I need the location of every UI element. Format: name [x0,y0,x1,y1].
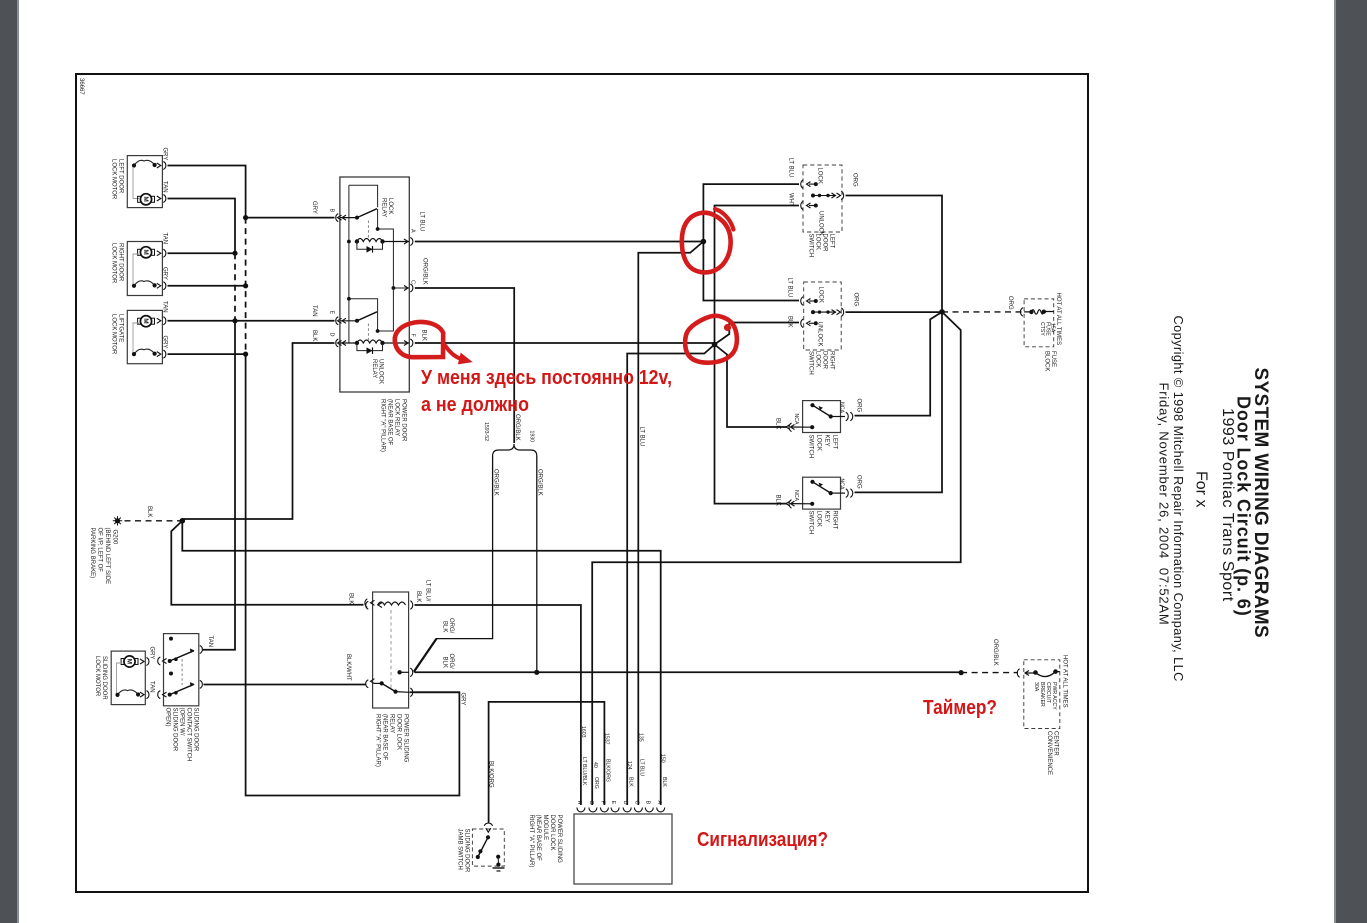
K2 actuator dashed [390,610,392,690]
svg-text:LOCK MOTOR: LOCK MOTOR [111,159,117,200]
jamb switch dashed box [472,829,504,866]
S4 pin right [846,489,853,498]
left door lock motor pin TAN [157,195,166,203]
svg-text:FUSE: FUSE [1050,351,1056,367]
svg-text:PARKING BRAKE): PARKING BRAKE) [89,528,95,579]
svg-text:BLK: BLK [627,777,633,787]
svg-text:BLK: BLK [421,330,427,341]
svg-text:40: 40 [592,762,598,768]
wire ORG right door lock switch to node3 [846,311,943,313]
svg-text:ORG/BLK: ORG/BLK [514,414,520,441]
wire BLK/WHT contact switch to sliding relay [204,684,366,686]
module pin D [623,808,631,812]
svg-text:Сигнализация?: Сигнализация? [697,829,828,851]
relay pin F [404,339,413,347]
relay pin B [336,214,346,222]
module pin E [611,808,619,812]
S3 pin right [846,412,853,421]
S1 pin UNLOCK [801,201,811,210]
right page-edge dark bar [1336,0,1367,923]
wire ORG/BLK relay pin C down [415,288,514,443]
svg-text:SWITCH: SWITCH [808,234,814,258]
svg-text:OPEN): OPEN) [165,708,171,727]
svg-text:RELAY: RELAY [389,714,395,733]
svg-text:(NEAR BASE OF: (NEAR BASE OF [382,714,388,761]
wire BLK G200 to module pin A [182,521,660,805]
svg-text:NCA: NCA [839,479,845,490]
left page-edge dark bar [0,0,17,923]
M4 motor symbol [124,656,135,667]
wire C internal [393,287,409,289]
K2 pin left bottom [366,679,375,688]
svg-text:(NEAR BASE OF: (NEAR BASE OF [535,815,541,862]
svg-text:LT BLU: LT BLU [639,759,645,776]
svg-text:LEFT: LEFT [829,234,835,249]
svg-text:ORG: ORG [1007,296,1013,310]
junction dot GRY right motor [243,283,248,288]
svg-text:GRY: GRY [162,267,168,280]
S5 pin left bottom [158,691,167,699]
wire E internal [340,320,357,322]
K2 mid contact [397,670,401,674]
svg-text:GRY: GRY [162,148,168,161]
svg-text:LOCK: LOCK [818,287,824,303]
svg-text:CONTACT SWITCH: CONTACT SWITCH [186,708,192,762]
svg-text:POWER SLIDING: POWER SLIDING [556,815,562,864]
svg-text:LOCK: LOCK [816,511,822,527]
svg-text:BLK: BLK [415,591,421,602]
S3 lower contact [810,425,814,429]
svg-text:(BEHIND LEFT SIDE: (BEHIND LEFT SIDE [104,528,110,585]
svg-text:CONVENIENCE: CONVENIENCE [1046,731,1052,775]
lock relay internal left rail [349,185,378,343]
S5 pin right top [200,646,203,654]
svg-text:OF I/P, LEFT OF: OF I/P, LEFT OF [97,528,103,573]
S4 pin left [786,500,795,509]
svg-text:15A: 15A [1050,323,1056,333]
svg-text:RIGHT "A" PILLAR): RIGHT "A" PILLAR) [528,815,534,868]
junction dot GRY/B [243,215,248,220]
M4 brush arc [118,690,139,695]
red circle around relay pin F [395,322,443,357]
svg-text:RELAY: RELAY [381,198,387,217]
left door lock switch dashed box [803,165,842,232]
K2 coil [378,602,406,605]
svg-text:E: E [329,311,335,315]
jamb switch pin top [484,823,492,832]
unlock relay clamp diode D2 [357,343,383,351]
node 2 BLK junction [712,342,718,348]
svg-text:а не должно: а не должно [421,394,529,416]
S1 UNLOCK contact [814,204,818,208]
svg-text:UNLOCK: UNLOCK [378,359,384,384]
svg-text:SWITCH: SWITCH [808,511,814,535]
svg-text:(NEAR BASE OF: (NEAR BASE OF [387,399,393,446]
svg-text:For x: For x [1193,471,1210,507]
S2 pin common (right) [832,308,844,317]
wire BLK node2 to left key switch [715,345,787,428]
svg-text:CTSY: CTSY [1039,322,1045,336]
wire TAN down to contact switch [203,321,236,650]
junction dot TAN liftgate [232,318,237,323]
svg-text:TAN: TAN [149,681,155,693]
S4 arm [813,482,831,493]
wire GRY junction to relay pin B [246,217,335,219]
svg-text:TAN: TAN [162,181,168,193]
contact switch box [164,634,199,706]
brace wire split under pin C [493,444,537,456]
wire LT BLU relay pin A to node1 [415,241,704,243]
svg-text:BLK: BLK [442,621,448,632]
red arrow to text [446,346,462,359]
wire A internal [383,241,410,243]
svg-text:ORG: ORG [856,475,862,489]
wire D internal [340,342,357,344]
red circle around node 1 [682,213,731,273]
wire BLK G200 to sliding relay coil [171,521,363,605]
svg-text:NCA: NCA [793,414,799,425]
S2 UNLOCK contact [814,321,818,325]
wire ORG left door lock switch to node3 [846,196,943,312]
diagram border frame [76,74,1088,892]
liftgate lock motor brush arc [134,349,155,354]
fuse block dashed box [1024,299,1054,347]
svg-text:LT BLU: LT BLU [788,158,794,178]
svg-text:BLK: BLK [442,657,448,668]
svg-text:G200: G200 [112,530,118,545]
svg-text:DOOR LOCK: DOOR LOCK [549,815,555,851]
wire ORG/BLK sliding relay to breaker [415,671,962,673]
svg-text:HOT AT ALL TIMES: HOT AT ALL TIMES [1062,655,1068,708]
wire LT BLU node1 up to left door lock switch [703,184,799,241]
S2 pin UNLOCK [801,319,811,328]
S2 pin LOCK [801,297,811,306]
svg-text:NCA: NCA [793,490,799,501]
wire ORG dashed to fuse [942,311,1023,313]
S1 common contacts [811,194,815,198]
K2 pin left top [365,599,375,610]
svg-text:MODULE: MODULE [542,815,548,841]
svg-text:BLK: BLK [311,330,317,341]
relay pin E [336,317,346,325]
svg-text:B: B [645,801,651,805]
svg-text:NCA: NCA [839,402,845,413]
svg-text:1593-52: 1593-52 [483,422,489,441]
wire BLK right door unlock to node2 [715,323,800,345]
wire BLK relay pin F to node2 [415,342,715,344]
svg-text:LOCK RELAY: LOCK RELAY [394,399,400,436]
svg-text:SLIDING DOOR: SLIDING DOOR [101,656,107,700]
svg-text:LOCK MOTOR: LOCK MOTOR [111,314,117,355]
svg-text:Таймер?: Таймер? [923,697,997,719]
wire GRY left door motor to junction [168,166,246,218]
S1 pin LOCK [801,180,811,189]
breaker element [1025,672,1060,677]
right door lock motor box [127,242,162,296]
relay pin C [404,284,413,292]
module box [574,814,672,884]
S1 LOCK contact [814,182,818,186]
module pin G [589,808,597,812]
lock relay clamp diode D1 [357,242,383,250]
liftgate lock motor pin GRY [157,350,166,358]
S3 right link [831,416,845,418]
svg-text:LOCK: LOCK [816,435,822,451]
svg-text:JAMB SWITCH: JAMB SWITCH [457,829,463,870]
svg-text:LT BLU: LT BLU [787,278,793,298]
K2 coil arrows [378,603,382,608]
unlock relay switch arm [357,312,377,321]
svg-text:ORG/BLK: ORG/BLK [537,469,543,496]
liftgate lock motor M symbol [140,316,151,327]
right door lock motor brush arc [134,281,155,286]
svg-text:Friday, November 26, 2004 07:: Friday, November 26, 2004 07:52AM [1157,383,1172,626]
jamb switch ground contact [496,855,500,859]
svg-text:LT BLU/: LT BLU/ [425,580,431,602]
svg-text:UNLOCK: UNLOCK [817,322,823,347]
svg-text:ORG/: ORG/ [448,654,454,670]
svg-text:GRY: GRY [460,693,466,706]
svg-text:SLIDING DOOR: SLIDING DOOR [193,708,199,752]
jamb switch arm [486,835,490,839]
left door lock motor M symbol [140,194,151,205]
svg-text:LT BLU/BLK: LT BLU/BLK [581,757,587,786]
unlock relay actuator dashed [367,324,369,341]
svg-text:B: B [329,209,335,213]
relay pin A [404,238,413,246]
node 1 LT BLU junction [701,239,707,245]
svg-text:BLK: BLK [661,777,667,787]
svg-text:LEFT DOOR: LEFT DOOR [118,159,124,194]
svg-text:FUSE: FUSE [1044,322,1050,336]
svg-text:LOCK: LOCK [817,168,823,184]
wire B internal [340,217,357,219]
right door lock motor pin TAN [157,249,166,257]
red circle around node 2 [685,316,737,363]
junction dot G200 [180,518,186,524]
svg-text:POWER SLIDING: POWER SLIDING [403,714,409,763]
svg-text:POWER DOOR: POWER DOOR [401,399,407,442]
sliding door lock motor box [111,651,145,705]
svg-text:ORG/: ORG/ [448,618,454,634]
svg-text:1993 Pontiac Trans Sport: 1993 Pontiac Trans Sport [1219,408,1236,602]
S4 lower contact [810,502,814,506]
S3 pin left [786,423,795,432]
svg-text:LIFTGATE: LIFTGATE [118,314,124,342]
S5 lower arm [168,693,172,697]
module pin B [645,808,653,812]
svg-text:M: M [125,659,132,664]
svg-text:LEFT: LEFT [832,435,838,450]
right door lock motor pin GRY [157,282,166,290]
left key lock switch box [803,401,841,433]
S3 arm [813,405,831,416]
svg-text:RIGHT "A" PILLAR): RIGHT "A" PILLAR) [375,714,381,767]
circuit breaker dashed box [1024,660,1060,729]
unlock relay feed [349,288,394,331]
svg-text:ORG: ORG [593,777,599,789]
wire GRY sliding relay jog [415,691,460,693]
svg-text:RIGHT: RIGHT [829,351,835,370]
svg-text:SLIDING DOOR: SLIDING DOOR [464,829,470,873]
wire ORG node3 to left key switch [855,312,943,416]
wire TAN left door motor to junction [168,199,236,254]
svg-text:BLK/ORG: BLK/ORG [605,759,611,782]
module pin A [657,808,665,812]
liftgate lock motor pin TAN [157,317,166,325]
svg-text:LOCK: LOCK [387,198,393,214]
wire F internal [383,342,410,344]
svg-text:ORG/BLK: ORG/BLK [493,469,499,496]
svg-text:A: A [410,229,416,233]
left door lock motor internal link [133,167,139,199]
S5 pin left top [158,657,167,665]
svg-text:KEY: KEY [824,511,830,523]
wire TAN liftgate motor to relay pin E [168,320,335,322]
red circle tail (node 1) [715,209,734,230]
svg-text:TAN: TAN [162,233,168,245]
svg-text:BLOCK: BLOCK [1044,351,1050,371]
S4 right link [831,492,845,494]
svg-text:LOCK: LOCK [815,234,821,250]
lock relay coil L1 [357,239,383,242]
relay pin D [336,339,346,347]
lock relay switch arm [357,209,377,218]
svg-text:30A: 30A [1033,682,1039,692]
svg-text:BLK: BLK [146,506,152,517]
wire BLK node2 to right key switch [715,345,787,504]
module pin H [577,808,585,812]
svg-text:KEY: KEY [824,435,830,447]
svg-text:G: G [588,801,594,805]
unlock relay coil L2 [357,340,383,343]
liftgate lock motor internal link [133,323,139,354]
svg-text:RIGHT: RIGHT [832,511,838,530]
svg-text:UNLOCK: UNLOCK [818,211,824,236]
junction dot GRY liftgate [243,352,248,357]
wire BLK/ORG jamb switch to module pin F [489,702,605,823]
svg-text:BLK/WHT: BLK/WHT [345,654,351,681]
svg-text:LT BLU: LT BLU [419,212,425,232]
liftgate lock motor box [127,310,162,363]
svg-text:RIGHT DOOR: RIGHT DOOR [118,243,124,282]
S5 mid open contact [169,672,173,676]
M4 pin TAN [140,691,149,699]
right door lock motor M symbol [140,247,151,258]
svg-text:LT BLU: LT BLU [639,427,645,447]
svg-text:RELAY: RELAY [371,359,377,378]
svg-text:M: M [142,318,149,323]
wire LT BLU/BLK sliding relay to module pin H [415,605,581,805]
svg-text:LOCK MOTOR: LOCK MOTOR [111,243,117,284]
svg-text:(OPEN W/: (OPEN W/ [179,708,185,736]
svg-text:GRY: GRY [162,336,168,349]
wire ORG/BLK dashed to breaker [961,672,1018,674]
svg-text:SWITCH: SWITCH [808,351,814,375]
S2 common contacts [811,310,815,314]
svg-text:SLIDING DOOR: SLIDING DOOR [172,708,178,752]
left door lock motor pin GRY [157,162,166,170]
wire GRY liftgate motor stub [168,353,246,355]
svg-text:ORG: ORG [856,399,862,413]
right door lock motor internal link [133,254,139,286]
wire WHT left door unlock to node2 [715,206,800,345]
right key lock switch box [803,477,841,509]
svg-text:ORG/BLK: ORG/BLK [422,258,428,285]
M4 pin GRY [140,658,149,666]
wire BLK node2 to module pin D [627,345,714,806]
wire TAN right door motor stub [168,252,236,254]
K2 lower switch arm [380,681,384,685]
jamb switch chassis ground [493,867,505,869]
left door lock motor box [127,156,162,208]
wire ORG/BLK split right branch [536,456,538,672]
svg-text:D: D [329,333,335,337]
right door lock switch dashed box [804,282,842,350]
fuse pin [1020,308,1022,317]
svg-text:LOCK MOTOR: LOCK MOTOR [94,656,100,697]
wire ORG node3 to module pin G [592,312,961,805]
left door lock motor brush arc [134,160,155,165]
svg-text:DOOR: DOOR [822,234,828,253]
svg-text:ORG: ORG [852,173,858,187]
wire ORG node3 to right key switch [855,312,943,493]
wire ORG/BLK split left branch [414,456,493,672]
wire TAN daisy chain dashed [234,253,236,321]
breaker pin [1017,669,1029,678]
wire GRY down to sliding relay [246,354,460,795]
svg-text:GRY: GRY [149,647,155,660]
S5 pin right bottom [200,680,203,688]
node 3 ORG junction [939,309,945,315]
svg-text:Copyright © 1998 Mitchell Repa: Copyright © 1998 Mitchell Repair Informa… [1171,316,1185,682]
svg-text:GRY: GRY [311,201,317,214]
wire GRY right door motor stub [168,285,246,287]
svg-text:BLK: BLK [348,593,354,604]
wire LT BLU node1 to module pin C [638,242,703,806]
svg-text:E: E [610,801,616,805]
wire BLK relay pin D to G200 node [182,343,334,519]
svg-text:HOT AT ALL TIMES: HOT AT ALL TIMES [1055,293,1061,346]
K2 pin right top [410,601,412,610]
S5 upper open contact [169,637,173,641]
S5 upper arm [168,659,172,663]
junction dot TAN right motor [232,251,237,256]
svg-text:M: M [142,196,149,201]
svg-text:M: M [142,249,149,254]
junction dot ORG/BLK at sliding relay wire [534,670,539,675]
S1 pin common (right) [832,191,844,200]
svg-text:У меня здесь постоянно 12v,: У меня здесь постоянно 12v, [421,367,672,389]
wire LT BLU node1 down to right door lock switch [703,242,799,301]
svg-text:RIGHT "A" PILLAR): RIGHT "A" PILLAR) [380,399,386,452]
module pin C [634,808,642,812]
power door lock relay box [340,177,409,392]
K2 pin right bottom [410,688,412,697]
svg-text:CENTER: CENTER [1053,731,1059,756]
svg-text:ORG/BLK: ORG/BLK [992,639,998,666]
wire BLK G200 dashed lead [125,520,183,522]
svg-text:ORG: ORG [853,293,859,307]
svg-text:36667: 36667 [78,78,84,95]
fuse element [1024,310,1054,314]
lock relay contact stub to node [378,209,394,288]
svg-text:SWITCH: SWITCH [808,435,814,459]
svg-text:TAN: TAN [162,301,168,313]
M4 internal link [117,663,123,695]
module pin F [600,808,608,812]
svg-text:LOCK: LOCK [815,351,821,367]
